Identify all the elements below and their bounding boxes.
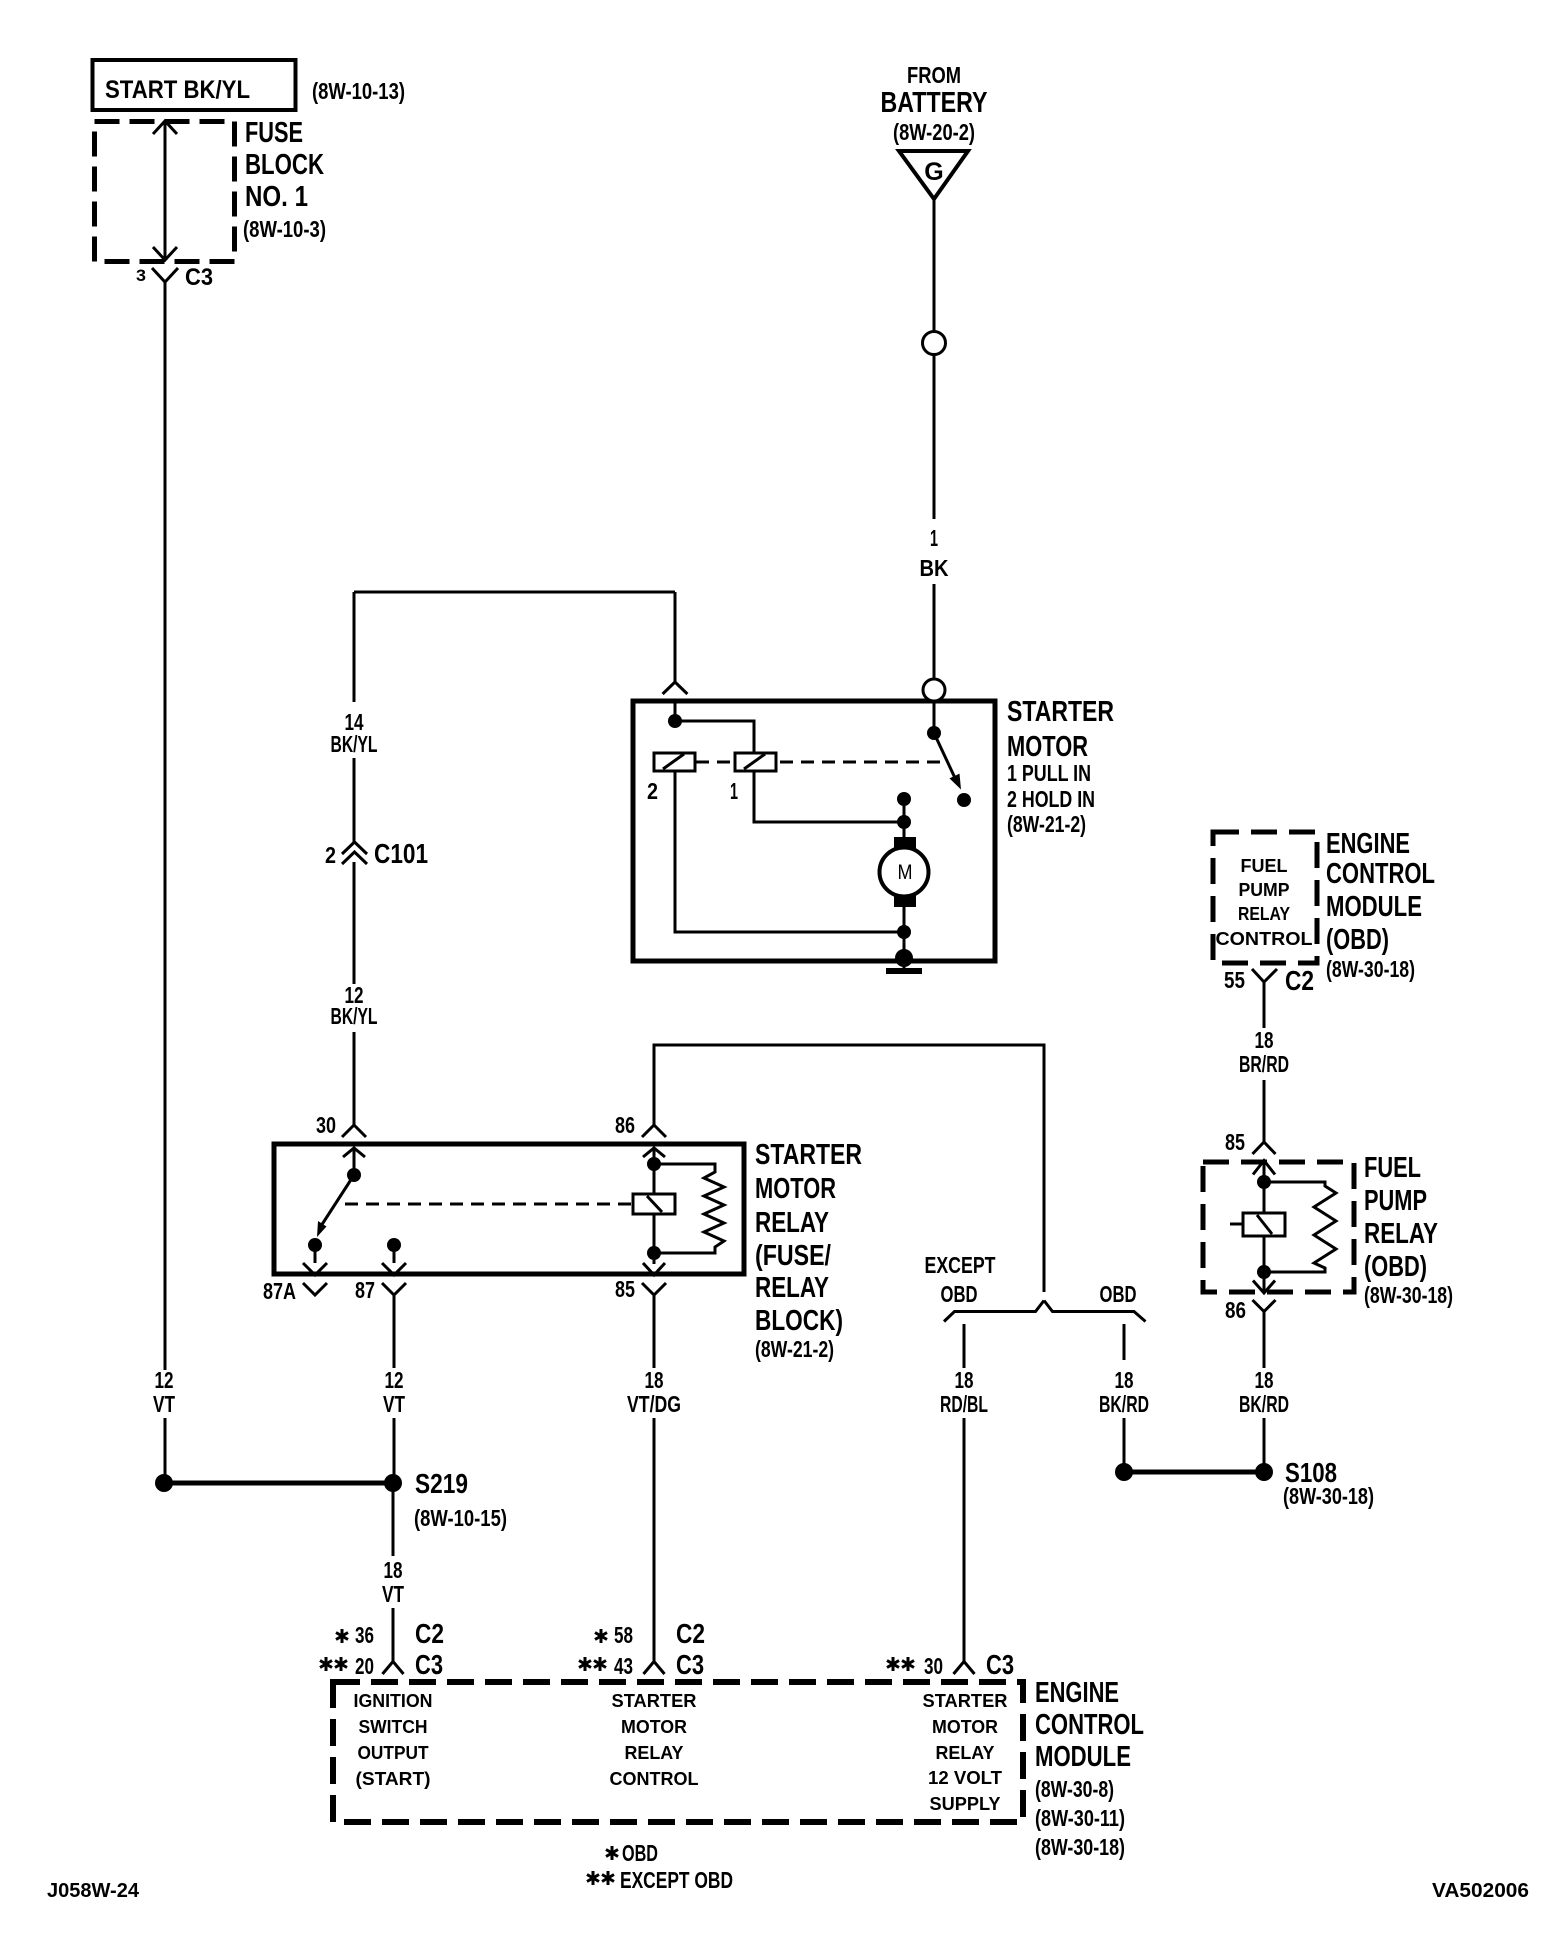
battery feed triangle G xyxy=(899,151,968,199)
svg-text:BLOCK): BLOCK) xyxy=(755,1305,843,1337)
svg-text:12: 12 xyxy=(155,1367,174,1393)
svg-text:VA502006: VA502006 xyxy=(1432,1880,1529,1902)
svg-text:(8W-30-18): (8W-30-18) xyxy=(1326,956,1415,982)
svg-text:C3: C3 xyxy=(676,1649,704,1680)
svg-text:(8W-10-15): (8W-10-15) xyxy=(414,1505,507,1531)
svg-text:86: 86 xyxy=(615,1112,635,1138)
svg-text:BK/YL: BK/YL xyxy=(331,1003,378,1029)
svg-text:SWITCH: SWITCH xyxy=(359,1716,428,1737)
svg-text:(START): (START) xyxy=(356,1768,431,1789)
relay resistor xyxy=(654,1164,724,1253)
starter motor relay box xyxy=(274,1144,744,1274)
connector 36/20 symbol xyxy=(383,1662,404,1675)
motor M xyxy=(880,822,929,962)
svg-text:1: 1 xyxy=(730,778,738,804)
mechanical link dashed xyxy=(696,761,940,764)
svg-text:FUEL: FUEL xyxy=(1364,1152,1421,1184)
svg-text:3: 3 xyxy=(136,266,146,285)
svg-text:STARTER: STARTER xyxy=(612,1690,697,1711)
wire coil 2 to motor bottom xyxy=(675,771,904,932)
svg-text:(8W-30-18): (8W-30-18) xyxy=(1364,1282,1453,1308)
svg-text:BR/RD: BR/RD xyxy=(1239,1051,1289,1077)
svg-text:18: 18 xyxy=(1255,1027,1274,1053)
svg-text:OBD: OBD xyxy=(941,1281,978,1307)
label 12 VT xyxy=(383,1367,405,1417)
svg-text:12: 12 xyxy=(385,1367,404,1393)
svg-text:VT: VT xyxy=(153,1391,175,1417)
wire 14 BK/YL top run xyxy=(354,592,675,1125)
node motor top junction xyxy=(897,815,911,829)
node starter motor relay 12 volt supply xyxy=(923,1690,1008,1814)
svg-text:IGNITION: IGNITION xyxy=(354,1690,433,1711)
node S108 splice bus xyxy=(1115,1463,1273,1481)
pin 87A connector xyxy=(303,1245,327,1295)
svg-text:(8W-10-13): (8W-10-13) xyxy=(312,78,405,104)
pin 86 inner connector xyxy=(1253,1281,1275,1294)
node START BK/YL feed box xyxy=(93,60,296,110)
wire battery to switch pivot xyxy=(933,701,936,733)
svg-text:18: 18 xyxy=(645,1367,664,1393)
svg-text:MOTOR: MOTOR xyxy=(1007,731,1088,763)
svg-text:(8W-21-2): (8W-21-2) xyxy=(755,1336,834,1362)
svg-text:VT: VT xyxy=(382,1581,404,1607)
svg-text:RELAY: RELAY xyxy=(755,1272,829,1304)
svg-text:BK/YL: BK/YL xyxy=(331,731,378,757)
svg-text:86: 86 xyxy=(1225,1297,1246,1323)
svg-text:PUMP: PUMP xyxy=(1239,879,1290,900)
wire 86 to OBD split xyxy=(654,1045,1044,1292)
wire 18 VT xyxy=(392,1483,395,1662)
svg-text:RELAY: RELAY xyxy=(625,1742,685,1763)
svg-text:FROM: FROM xyxy=(907,62,961,88)
svg-text:RELAY: RELAY xyxy=(1364,1218,1438,1250)
svg-text:J058W-24: J058W-24 xyxy=(47,1880,140,1902)
svg-text:VT/DG: VT/DG xyxy=(627,1391,681,1417)
svg-text:CONTROL: CONTROL xyxy=(1035,1709,1144,1741)
label 1 BK xyxy=(920,525,949,581)
svg-text:(8W-10-3): (8W-10-3) xyxy=(243,216,326,242)
wire fuel relay coil xyxy=(1263,1161,1266,1293)
wire 18 BK/RD OBD branch xyxy=(1123,1324,1126,1465)
label ENGINE CONTROL MODULE xyxy=(1035,1677,1144,1860)
starter motor box xyxy=(633,701,995,961)
connector C3 symbol xyxy=(152,268,178,300)
svg-text:85: 85 xyxy=(1225,1129,1245,1155)
wire 18 RD/BL xyxy=(963,1324,966,1662)
svg-text:STARTER: STARTER xyxy=(1007,696,1114,728)
pin 85 connector xyxy=(642,1263,666,1295)
relay link dashed xyxy=(345,1203,631,1206)
svg-text:FUEL: FUEL xyxy=(1241,855,1288,876)
pin 87 connector xyxy=(382,1245,406,1295)
svg-text:85: 85 xyxy=(615,1276,635,1302)
svg-text:C2: C2 xyxy=(676,1618,705,1649)
wire 1 BK battery feed xyxy=(933,199,936,679)
node coil top xyxy=(647,1157,661,1171)
svg-text:VT: VT xyxy=(383,1391,405,1417)
label 18 BK/RD xyxy=(1099,1367,1149,1417)
svg-text:30: 30 xyxy=(316,1112,336,1138)
svg-text:S219: S219 xyxy=(415,1468,468,1499)
pin 20 C3 labels xyxy=(320,1649,443,1680)
label 12 BK/YL xyxy=(331,982,378,1029)
svg-text:EXCEPT OBD: EXCEPT OBD xyxy=(620,1867,733,1893)
svg-text:MOTOR: MOTOR xyxy=(621,1716,687,1737)
label STARTER MOTOR RELAY xyxy=(755,1139,862,1362)
svg-text:(8W-30-18): (8W-30-18) xyxy=(1283,1483,1374,1509)
svg-text:OBD: OBD xyxy=(1100,1281,1137,1307)
label 18 VT/DG xyxy=(627,1367,681,1417)
svg-text:G: G xyxy=(924,158,943,186)
fuel relay coil xyxy=(1230,1213,1285,1236)
svg-text:FUSE: FUSE xyxy=(245,117,303,149)
wire 18 VT/DG from pin 85 xyxy=(653,1295,656,1662)
svg-text:18: 18 xyxy=(384,1557,403,1583)
node coil bottom xyxy=(647,1246,661,1260)
svg-text:OUTPUT: OUTPUT xyxy=(358,1742,430,1763)
node S219 splice bus xyxy=(155,1474,402,1492)
svg-text:CONTROL: CONTROL xyxy=(1216,928,1313,949)
svg-text:START BK/YL: START BK/YL xyxy=(105,76,250,104)
node starter motor relay control xyxy=(610,1690,699,1789)
wire post stub xyxy=(903,799,906,822)
svg-text:12 VOLT: 12 VOLT xyxy=(928,1767,1003,1788)
relay coil xyxy=(633,1194,675,1214)
svg-text:STARTER: STARTER xyxy=(755,1139,862,1171)
svg-text:30: 30 xyxy=(924,1653,943,1679)
pin 85 connector xyxy=(1253,1142,1276,1154)
node solenoid junction xyxy=(668,714,682,728)
node relay common xyxy=(347,1168,361,1182)
svg-text:(OBD): (OBD) xyxy=(1364,1251,1427,1283)
svg-text:87: 87 xyxy=(355,1277,375,1303)
label 12 VT left xyxy=(153,1367,175,1417)
connector C101 symbol xyxy=(342,842,367,864)
wire relay coil vertical xyxy=(653,1148,656,1264)
node fuel coil bottom xyxy=(1257,1265,1271,1279)
svg-text:(8W-30-8): (8W-30-8) xyxy=(1035,1776,1114,1802)
svg-text:EXCEPT: EXCEPT xyxy=(925,1252,996,1278)
relay switch arm xyxy=(317,1175,354,1237)
switch pivot xyxy=(927,726,941,740)
wire 18 BK/RD fuel relay xyxy=(1263,1324,1266,1465)
label 18 VT xyxy=(382,1557,404,1607)
label 14 BK/YL xyxy=(331,709,378,757)
svg-text:(FUSE/: (FUSE/ xyxy=(755,1240,831,1272)
node ignition switch output xyxy=(354,1690,433,1789)
svg-text:BK: BK xyxy=(920,555,949,581)
label STARTER MOTOR xyxy=(1007,696,1114,837)
wire fuse block internal arrow xyxy=(153,121,177,260)
svg-text:SUPPLY: SUPPLY xyxy=(930,1793,1002,1814)
pin 58 C2 labels xyxy=(595,1618,705,1649)
pin 86 connector xyxy=(642,1125,666,1157)
node motor bottom junction xyxy=(897,925,911,939)
fuel pump relay dashed box xyxy=(1203,1162,1354,1292)
solenoid coil 1 xyxy=(735,753,776,771)
svg-text:20: 20 xyxy=(355,1653,374,1679)
svg-text:36: 36 xyxy=(355,1622,374,1648)
svg-text:STARTER: STARTER xyxy=(923,1690,1008,1711)
svg-text:RD/BL: RD/BL xyxy=(940,1391,988,1417)
svg-text:C2: C2 xyxy=(415,1618,444,1649)
label FUEL PUMP RELAY (OBD) xyxy=(1364,1152,1453,1308)
svg-text:2: 2 xyxy=(325,842,336,868)
switch contact dot xyxy=(957,793,971,807)
label ENGINE CONTROL MODULE (OBD) xyxy=(1326,828,1435,982)
pin 85 inner connector xyxy=(1253,1161,1275,1175)
pin 36 C2 labels xyxy=(336,1618,444,1649)
node 87 contact xyxy=(387,1238,401,1252)
connector 58/43 symbol xyxy=(644,1662,665,1675)
svg-text:(OBD): (OBD) xyxy=(1326,924,1389,956)
svg-text:C3: C3 xyxy=(185,264,213,291)
label 18 RD/BL xyxy=(940,1367,988,1417)
label EXCEPT OBD xyxy=(925,1252,996,1307)
pin 43 C3 labels xyxy=(579,1649,704,1680)
svg-text:C3: C3 xyxy=(986,1649,1014,1680)
inline connector circle xyxy=(923,332,946,355)
fuse block No.1 dashed box xyxy=(95,117,327,262)
solenoid coil 2 xyxy=(654,753,695,771)
svg-text:RELAY: RELAY xyxy=(1238,903,1291,924)
svg-text:MOTOR: MOTOR xyxy=(755,1173,836,1205)
fuel relay resistor xyxy=(1264,1182,1336,1272)
svg-text:1: 1 xyxy=(930,525,938,551)
svg-text:(8W-21-2): (8W-21-2) xyxy=(1007,811,1086,837)
label 18 BK/RD fuel xyxy=(1239,1367,1289,1417)
starter motor terminal circle xyxy=(923,679,945,701)
ECM OBD dashed box xyxy=(1213,832,1317,963)
svg-text:87A: 87A xyxy=(263,1278,296,1304)
svg-text:MOTOR: MOTOR xyxy=(932,1716,998,1737)
node FROM BATTERY xyxy=(881,62,988,145)
svg-text:BATTERY: BATTERY xyxy=(881,87,988,119)
svg-text:C101: C101 xyxy=(374,838,428,869)
svg-text:RELAY: RELAY xyxy=(755,1207,829,1239)
svg-text:PUMP: PUMP xyxy=(1364,1185,1427,1217)
svg-text:BK/RD: BK/RD xyxy=(1099,1391,1149,1417)
svg-text:18: 18 xyxy=(1115,1367,1134,1393)
svg-text:43: 43 xyxy=(614,1653,633,1679)
connector 30 C3 symbol xyxy=(954,1662,975,1675)
svg-text:M: M xyxy=(898,861,913,884)
legend OBD xyxy=(606,1840,658,1866)
engine control module dashed box xyxy=(333,1682,1023,1822)
wire coil 1 to motor top xyxy=(754,771,904,822)
pin 86 connector xyxy=(1253,1300,1276,1324)
svg-text:55: 55 xyxy=(1224,967,1245,993)
svg-text:58: 58 xyxy=(614,1622,633,1648)
svg-text:CONTROL: CONTROL xyxy=(1326,858,1435,890)
svg-text:BK/RD: BK/RD xyxy=(1239,1391,1289,1417)
label 18 BR/RD xyxy=(1239,1027,1289,1077)
wire 12 VT left run xyxy=(164,300,167,1476)
svg-text:C3: C3 xyxy=(415,1649,443,1680)
svg-text:ENGINE: ENGINE xyxy=(1326,828,1410,860)
svg-text:MODULE: MODULE xyxy=(1326,891,1422,923)
svg-text:18: 18 xyxy=(955,1367,974,1393)
svg-text:(8W-30-11): (8W-30-11) xyxy=(1035,1805,1125,1831)
pin 30 connector xyxy=(342,1125,366,1175)
node 87A contact xyxy=(308,1238,322,1252)
svg-text:(8W-20-2): (8W-20-2) xyxy=(893,119,975,145)
svg-text:(8W-30-18): (8W-30-18) xyxy=(1035,1834,1125,1860)
wire junction to coil 1 xyxy=(675,721,754,753)
node contact post xyxy=(897,792,911,806)
OBD option split symbol xyxy=(944,1301,1146,1322)
connector C2 symbol xyxy=(1252,969,1277,999)
svg-text:C2: C2 xyxy=(1285,965,1314,996)
svg-text:RELAY: RELAY xyxy=(936,1742,996,1763)
svg-text:OBD: OBD xyxy=(622,1840,658,1866)
svg-text:2: 2 xyxy=(647,778,658,804)
svg-text:MODULE: MODULE xyxy=(1035,1741,1131,1773)
pin 30 C3 labels xyxy=(887,1649,1014,1680)
svg-text:NO. 1: NO. 1 xyxy=(245,181,308,213)
svg-text:2 HOLD IN: 2 HOLD IN xyxy=(1007,786,1095,812)
svg-text:BLOCK: BLOCK xyxy=(245,149,324,181)
wire 18 BR/RD xyxy=(1263,999,1266,1142)
svg-text:ENGINE: ENGINE xyxy=(1035,1677,1119,1709)
legend EXCEPT OBD xyxy=(587,1867,733,1893)
svg-text:18: 18 xyxy=(1255,1367,1274,1393)
switch arm xyxy=(934,733,961,790)
ground xyxy=(886,949,922,971)
pin 2 entry wire xyxy=(663,592,688,721)
wire 12 VT from pin 87 xyxy=(393,1295,396,1475)
svg-text:CONTROL: CONTROL xyxy=(610,1768,699,1789)
svg-text:1 PULL IN: 1 PULL IN xyxy=(1007,760,1091,786)
node fuel coil top xyxy=(1257,1175,1271,1189)
